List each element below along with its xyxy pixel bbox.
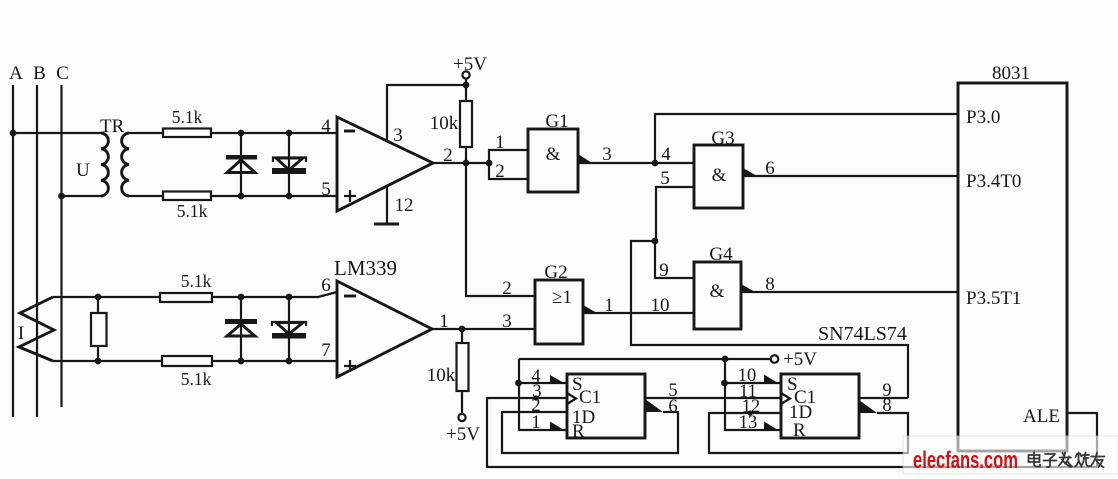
watermark panel: [903, 436, 1118, 474]
svg-text:LM339: LM339: [334, 256, 397, 280]
wire: G2 output to G4 input 10: [583, 295, 694, 316]
wire: FF2 Q feedback to G3.5 / G4.9: [631, 241, 908, 398]
wire: [129, 195, 163, 197]
+5V terminal (bottom): [446, 414, 480, 445]
svg-text:+5V: +5V: [446, 424, 480, 445]
wire: [53, 360, 162, 362]
svg-text:8: 8: [765, 274, 775, 295]
svg-text:B: B: [33, 63, 46, 84]
wire: top rail to comparator pin 4: [129, 132, 163, 134]
svg-text:A: A: [9, 63, 23, 84]
wire: FF1 Q (pin 5) to FF2 clock (pin 11): [645, 381, 781, 417]
resistor 10k (pull-up, comparator 2): [427, 329, 469, 414]
IC 8031: [958, 63, 1067, 451]
wire: FF2 S/R tie to +5V (pins 10,13): [721, 359, 781, 433]
svg-text:C1: C1: [579, 387, 601, 408]
svg-text:5.1k: 5.1k: [172, 107, 203, 127]
resistor 5.1k (voltage path, top): [163, 107, 211, 137]
wire: comparator pin 3 to +5V rail: [387, 85, 466, 141]
wire: FF2 Q (pin 9) output: [859, 381, 908, 416]
svg-text:≥1: ≥1: [552, 287, 572, 308]
svg-text:6: 6: [321, 275, 331, 296]
svg-text:3: 3: [502, 311, 512, 332]
diode clamp V4: [272, 294, 306, 365]
comparator N1 (voltage, LM339 section): [321, 116, 453, 216]
svg-text:1: 1: [604, 295, 614, 316]
svg-text:6: 6: [765, 158, 775, 179]
svg-text:C: C: [56, 63, 69, 84]
+5V rail for flip-flops: [519, 349, 817, 370]
wire: G3 input 5: [652, 168, 694, 244]
svg-text:5: 5: [321, 179, 331, 200]
svg-text:4: 4: [321, 116, 331, 137]
wire: FF1 D tied to Q-bar (pins 2,6): [502, 399, 678, 453]
svg-text:G1: G1: [545, 111, 568, 132]
diode clamp V2: [272, 130, 306, 200]
svg-text:6: 6: [668, 397, 677, 417]
watermark chinese characters: [1029, 452, 1105, 467]
svg-text:3: 3: [602, 144, 612, 165]
current transformer I: [18, 297, 54, 361]
svg-text:&: &: [546, 144, 561, 165]
svg-text:10k: 10k: [430, 113, 459, 134]
wire: G3 output to 8031 P3.4T0: [743, 158, 958, 179]
junction on line C: [58, 193, 65, 200]
svg-text:12: 12: [395, 195, 414, 216]
svg-text:R: R: [572, 421, 585, 442]
svg-text:5: 5: [660, 168, 670, 189]
resistor (burden): [91, 297, 107, 364]
wire: line C to transformer primary bottom: [62, 195, 102, 197]
wire: FF2 D tied to Q-bar (pins 12,8): [709, 400, 908, 453]
resistor 10k (pull-up, comparator 1): [430, 101, 472, 163]
svg-text:R: R: [793, 420, 806, 441]
svg-text:13: 13: [739, 413, 758, 433]
svg-text:SN74LS74: SN74LS74: [818, 323, 907, 345]
gate G4 (AND): [694, 244, 741, 329]
svg-text:4: 4: [661, 144, 671, 165]
phase line A: [9, 63, 23, 417]
svg-text:P3.5T1: P3.5T1: [966, 288, 1021, 309]
junction on line A: [10, 130, 17, 137]
resistor 5.1k (current path, bottom): [162, 356, 212, 389]
flip-flop FF2 (SN74LS74 second half): [781, 374, 859, 441]
flip-flop FF1 (SN74LS74 first half): [567, 374, 645, 442]
transformer TR: [76, 116, 129, 196]
wire: [211, 195, 337, 197]
svg-text:elecfans.com: elecfans.com: [913, 447, 1018, 474]
svg-text:I: I: [18, 323, 24, 344]
svg-text:5.1k: 5.1k: [177, 201, 208, 221]
wire: [211, 132, 337, 134]
svg-text:+5V: +5V: [453, 54, 487, 75]
wire: FF1 S/R tie to +5V (pins 4,1): [515, 359, 567, 433]
svg-text:2: 2: [495, 161, 505, 182]
svg-text:U: U: [76, 160, 90, 181]
svg-text:8: 8: [882, 396, 891, 416]
svg-text:&: &: [710, 281, 725, 302]
gate G3 (AND): [694, 128, 743, 208]
svg-text:ALE: ALE: [1023, 406, 1060, 427]
svg-text:10: 10: [651, 295, 670, 316]
svg-text:10k: 10k: [427, 365, 456, 386]
wire: G1 output to G3 input 4: [578, 144, 694, 166]
svg-text:5.1k: 5.1k: [181, 271, 212, 291]
diode clamp V1: [226, 130, 257, 200]
ground (comparator pin 12): [374, 187, 399, 224]
phase line B: [33, 63, 46, 417]
wire: [212, 292, 337, 297]
wire: line A to transformer primary: [13, 132, 101, 134]
svg-text:G3: G3: [711, 128, 734, 149]
gate G2 (OR): [535, 262, 583, 344]
svg-text:3: 3: [393, 125, 403, 146]
svg-text:TR: TR: [100, 116, 125, 137]
svg-text:7: 7: [321, 340, 331, 361]
wire: comparator 2 output to G2 input 3: [432, 311, 535, 332]
svg-text:G4: G4: [709, 244, 733, 265]
svg-text:1: 1: [495, 132, 505, 153]
diode clamp V3: [225, 294, 257, 365]
G3 output wedge: [743, 168, 757, 176]
+5V terminal (top): [453, 54, 487, 101]
svg-text:P3.4T0: P3.4T0: [966, 171, 1021, 192]
svg-text:2: 2: [502, 278, 512, 299]
wire: comparator 1 output node: [433, 160, 492, 167]
wire: comparator 1 output to G2 input 2: [466, 163, 535, 299]
wire: G1 input bracket: [489, 132, 528, 182]
wire: current sensor top rail: [53, 294, 160, 301]
svg-text:9: 9: [659, 260, 669, 281]
svg-text:G2: G2: [544, 262, 567, 283]
comparator N2 (current, LM339 section): [321, 256, 449, 377]
wire: G4 output to 8031 P3.5T1: [741, 274, 958, 295]
phase line C: [56, 63, 69, 407]
wire: ALE line to FF1 clock (pin 3): [487, 395, 1097, 467]
svg-text:P3.0: P3.0: [966, 107, 1000, 128]
resistor 5.1k (voltage path, bottom): [163, 192, 211, 222]
G4 output wedge: [741, 284, 755, 292]
svg-text:1: 1: [531, 413, 540, 433]
svg-text:5.1k: 5.1k: [181, 369, 212, 389]
G2 output wedge: [583, 305, 597, 313]
svg-text:+5V: +5V: [783, 349, 817, 370]
svg-text:8031: 8031: [992, 63, 1030, 84]
resistor 5.1k (current path, top): [160, 271, 212, 302]
wire: [212, 360, 337, 362]
svg-text:&: &: [712, 165, 727, 186]
G1 output wedge: [578, 154, 592, 163]
gate G1 (AND): [528, 111, 578, 192]
wire: node to 8031 P3.0: [655, 114, 958, 163]
